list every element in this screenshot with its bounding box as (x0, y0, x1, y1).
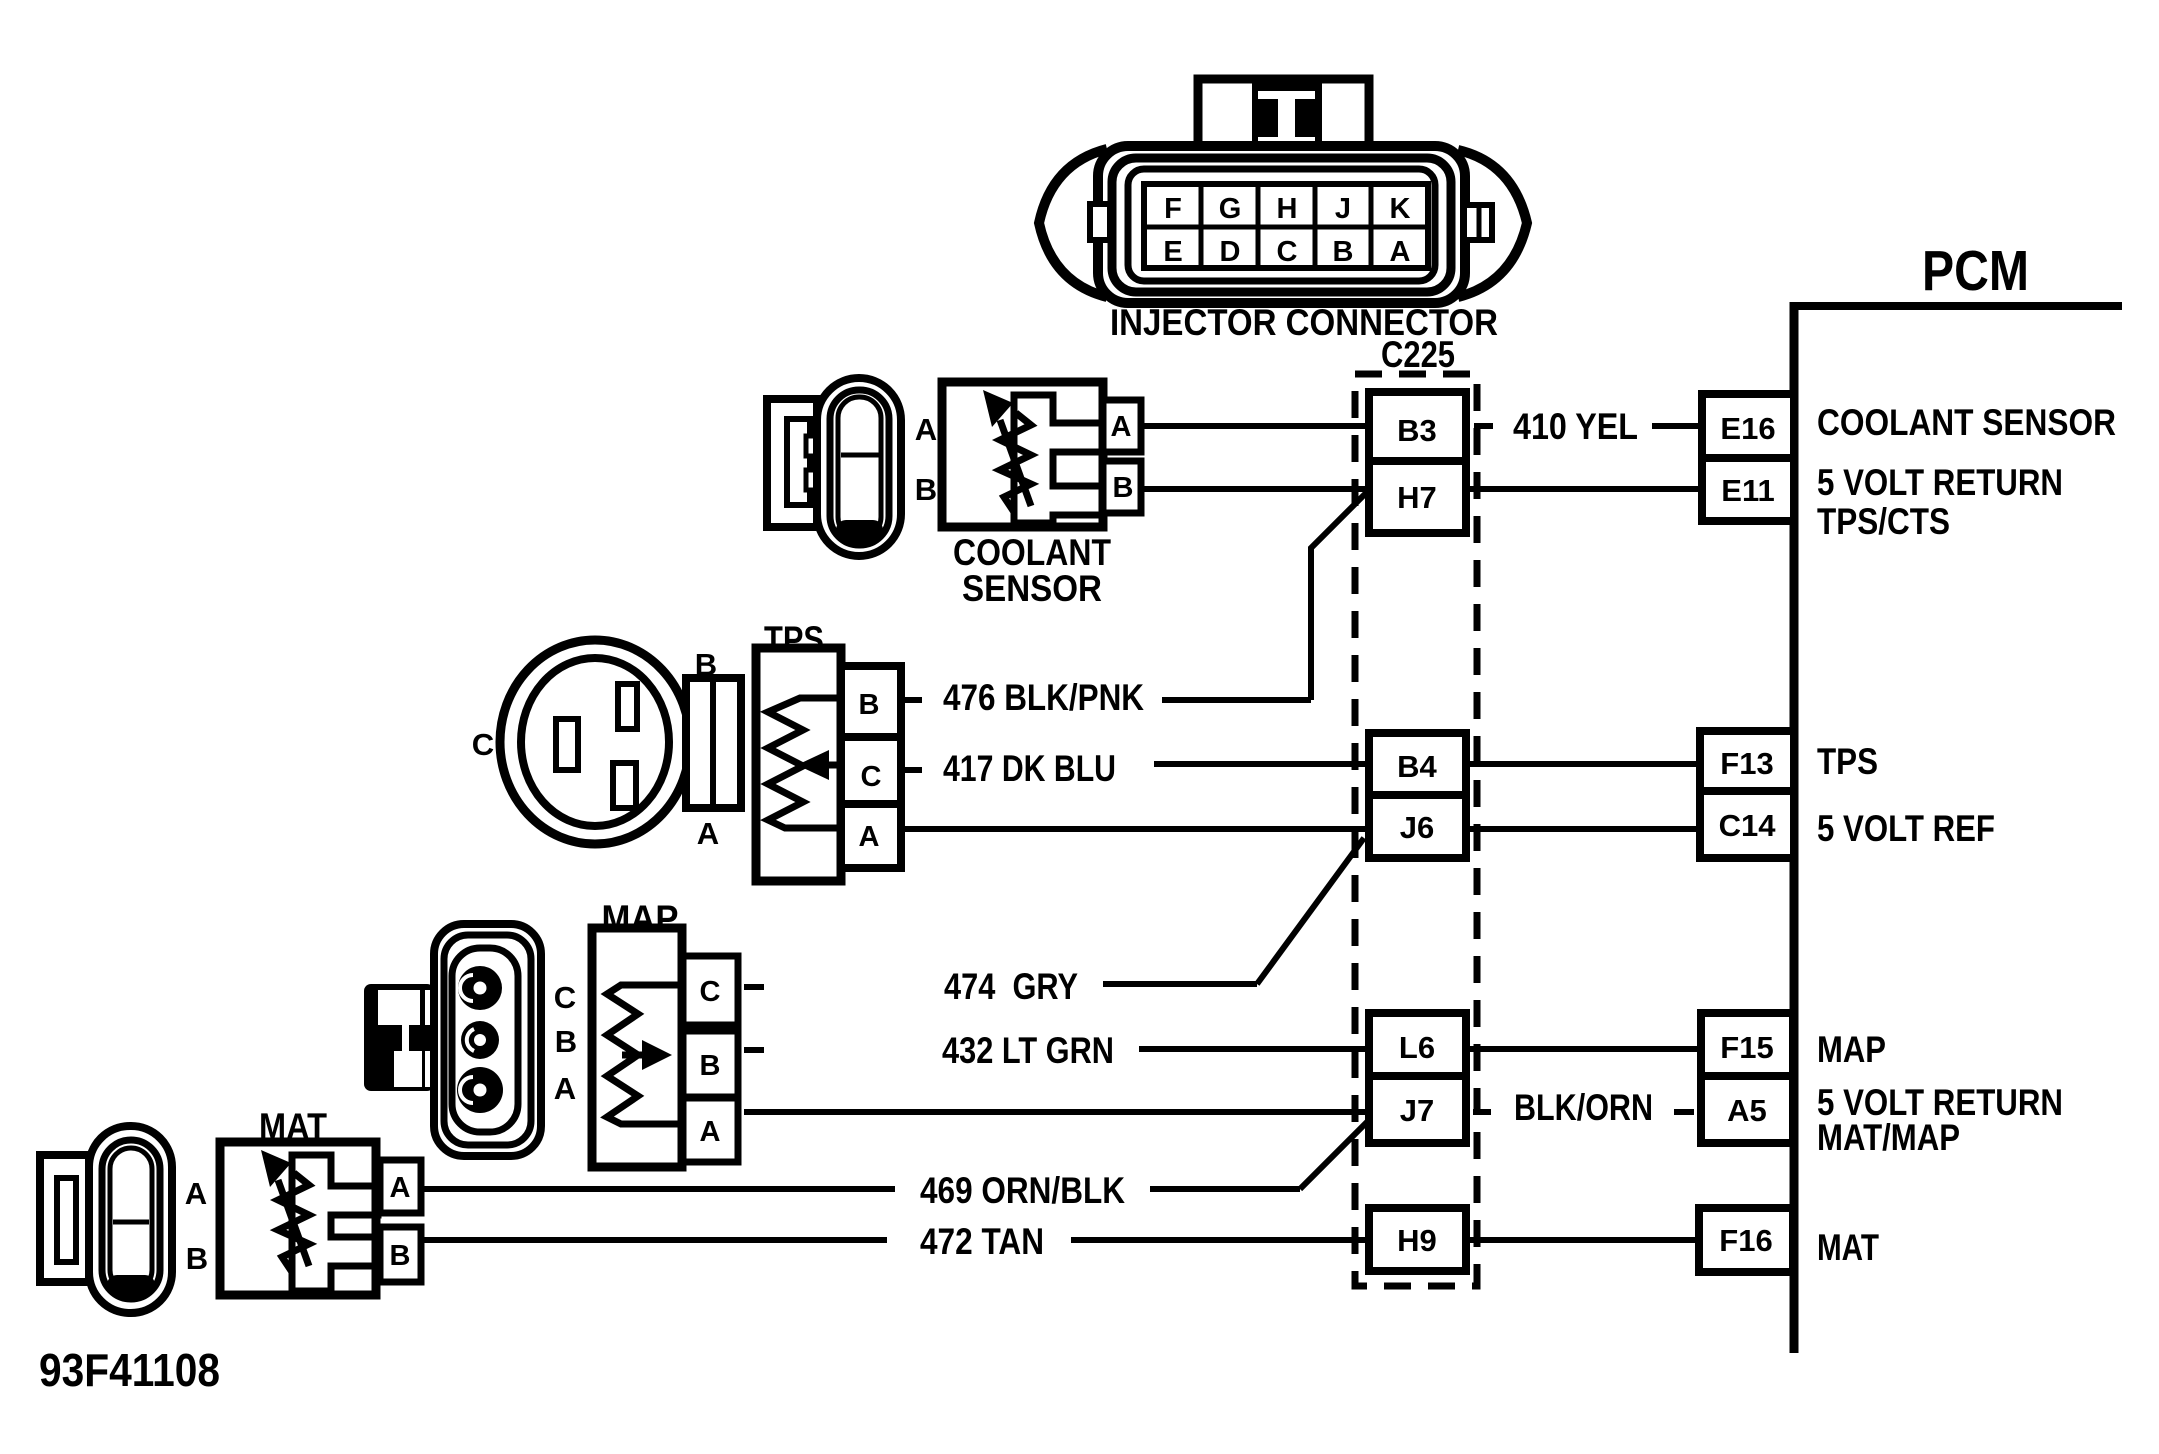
svg-text:A: A (700, 1116, 721, 1148)
svg-text:C: C (861, 761, 882, 793)
svg-text:B: B (695, 647, 717, 682)
svg-text:A: A (859, 821, 880, 853)
svg-text:C14: C14 (1719, 808, 1777, 843)
svg-text:B: B (555, 1024, 577, 1059)
svg-text:A: A (1111, 411, 1132, 443)
svg-text:F15: F15 (1720, 1030, 1773, 1065)
svg-text:93F41108: 93F41108 (39, 1344, 220, 1396)
svg-text:J7: J7 (1400, 1093, 1434, 1128)
svg-text:C: C (700, 976, 721, 1008)
svg-text:F16: F16 (1719, 1223, 1772, 1258)
svg-text:474 GRY: 474 GRY (944, 966, 1078, 1007)
svg-text:F13: F13 (1720, 746, 1773, 781)
svg-text:BLK/ORN: BLK/ORN (1514, 1087, 1653, 1128)
svg-text:C: C (1277, 236, 1298, 268)
svg-text:B: B (915, 472, 937, 507)
svg-text:A5: A5 (1727, 1093, 1767, 1128)
svg-text:D: D (1220, 236, 1241, 268)
svg-text:E: E (1163, 236, 1182, 268)
svg-text:469 ORN/BLK: 469 ORN/BLK (920, 1170, 1125, 1211)
svg-text:L6: L6 (1399, 1030, 1435, 1065)
svg-text:A: A (697, 816, 719, 851)
svg-text:5 VOLT RETURN: 5 VOLT RETURN (1817, 462, 2063, 503)
svg-text:A: A (1390, 236, 1411, 268)
svg-text:B: B (1333, 236, 1354, 268)
svg-text:5 VOLT REF: 5 VOLT REF (1817, 808, 1995, 849)
svg-text:TPS: TPS (1817, 741, 1878, 782)
svg-text:SENSOR: SENSOR (962, 568, 1102, 609)
svg-text:TPS/CTS: TPS/CTS (1817, 501, 1950, 542)
svg-text:MAT/MAP: MAT/MAP (1817, 1117, 1960, 1158)
svg-text:MAT: MAT (1817, 1227, 1879, 1268)
svg-text:G: G (1219, 193, 1242, 225)
svg-text:E11: E11 (1721, 473, 1774, 508)
svg-text:432 LT GRN: 432 LT GRN (942, 1030, 1114, 1071)
svg-text:B: B (700, 1050, 721, 1082)
svg-text:C: C (554, 980, 576, 1015)
svg-text:F: F (1164, 193, 1182, 225)
svg-text:B: B (390, 1240, 411, 1272)
svg-text:472 TAN: 472 TAN (920, 1221, 1044, 1262)
svg-text:COOLANT: COOLANT (953, 532, 1111, 573)
svg-text:B: B (1113, 472, 1134, 504)
svg-text:PCM: PCM (1922, 239, 2029, 303)
svg-text:E16: E16 (1720, 411, 1775, 446)
svg-text:A: A (185, 1176, 207, 1211)
svg-text:A: A (554, 1071, 576, 1106)
svg-text:A: A (390, 1172, 411, 1204)
svg-text:C: C (472, 727, 494, 762)
svg-text:A: A (915, 412, 937, 447)
svg-text:476 BLK/PNK: 476 BLK/PNK (943, 677, 1144, 718)
svg-text:B4: B4 (1397, 749, 1437, 784)
svg-text:J: J (1335, 193, 1351, 225)
svg-text:417 DK BLU: 417 DK BLU (943, 748, 1116, 789)
svg-text:K: K (1390, 193, 1411, 225)
svg-text:COOLANT SENSOR: COOLANT SENSOR (1817, 402, 2116, 443)
svg-text:B: B (859, 689, 880, 721)
svg-text:J6: J6 (1400, 810, 1434, 845)
svg-text:H: H (1277, 193, 1298, 225)
svg-text:H7: H7 (1397, 480, 1437, 515)
svg-text:H9: H9 (1397, 1223, 1437, 1258)
svg-text:410 YEL: 410 YEL (1513, 406, 1638, 447)
svg-text:MAP: MAP (1817, 1029, 1886, 1070)
svg-text:B: B (186, 1241, 208, 1276)
svg-text:C225: C225 (1381, 334, 1455, 375)
svg-text:B3: B3 (1397, 413, 1437, 448)
